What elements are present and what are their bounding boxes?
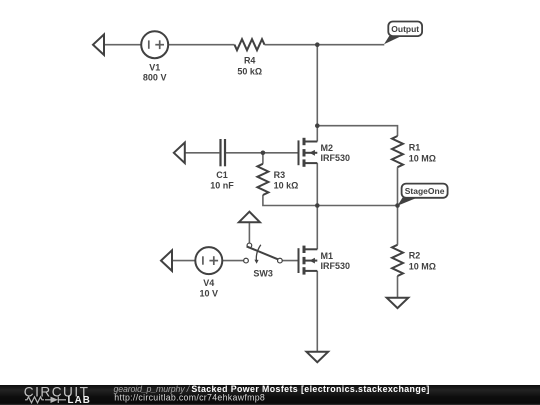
- svg-text:800 V: 800 V: [143, 73, 167, 83]
- svg-text:Output: Output: [391, 24, 419, 34]
- resistor R1: [392, 136, 403, 167]
- wire: R4 to Output flag: [265, 44, 385, 46]
- net flag arrow (top-left, net of V1): [93, 34, 104, 55]
- svg-text:R4: R4: [244, 55, 256, 65]
- wire: R2 top lead: [397, 206, 399, 245]
- junction node dots: [261, 42, 400, 207]
- wire: R3 bottom elbow to StageOne rail: [263, 195, 398, 206]
- svg-text:V1: V1: [149, 62, 160, 72]
- resistor R2: [392, 245, 403, 276]
- wire: V4 to SW3 pole: [222, 260, 243, 262]
- svg-text:10 nF: 10 nF: [210, 180, 234, 190]
- wire: junction to R1 top: [317, 126, 397, 136]
- transistor M1 (NMOS IRF530): [299, 246, 318, 275]
- svg-text:10 kΩ: 10 kΩ: [274, 181, 299, 191]
- voltage source V1: [141, 31, 168, 58]
- wire: M2 drain up to junction: [316, 126, 318, 142]
- svg-text:V4: V4: [203, 278, 214, 288]
- net flag arrow (mid-left, input net): [174, 143, 185, 164]
- wire: R2 bottom to ground: [397, 276, 399, 298]
- switch SW3 (SPDT): [244, 243, 283, 263]
- svg-text:10 MΩ: 10 MΩ: [409, 154, 436, 164]
- resistor R4: [235, 39, 265, 50]
- resistor R3: [257, 164, 268, 195]
- svg-text:10 MΩ: 10 MΩ: [409, 262, 436, 272]
- svg-text:10 V: 10 V: [200, 288, 219, 298]
- svg-text:R1: R1: [409, 143, 421, 153]
- svg-text:IRF530: IRF530: [321, 261, 351, 271]
- ground (below R2): [387, 298, 409, 308]
- net flag arrow (up, above SW3): [239, 212, 260, 223]
- node: output rail junction: [315, 42, 320, 47]
- node: M2 drain / R1 junction: [315, 123, 320, 128]
- net flag Output: [384, 36, 402, 44]
- svg-text:M2: M2: [321, 143, 334, 153]
- wire: top junction down to drain rail junction: [316, 45, 318, 126]
- node: C1 / R3 / M2 gate junction: [261, 151, 266, 156]
- wire: flag to V1: [104, 44, 141, 46]
- svg-text:50 kΩ: 50 kΩ: [237, 66, 262, 76]
- svg-text:C1: C1: [216, 170, 228, 180]
- svg-text:M1: M1: [321, 251, 334, 261]
- svg-text:R2: R2: [409, 251, 421, 261]
- wire: junction to R3 top: [262, 153, 264, 164]
- svg-text:IRF530: IRF530: [321, 153, 351, 163]
- wire: flag to C1: [185, 152, 220, 154]
- capacitor C1: [221, 139, 226, 166]
- wire: V1 to R4: [168, 44, 234, 46]
- svg-text:SW3: SW3: [253, 269, 273, 279]
- wire: junction to M2 gate: [263, 152, 299, 154]
- wire: R1 bottom to StageOne rail: [397, 167, 399, 205]
- wire: flag to V4: [172, 260, 195, 262]
- svg-text:R3: R3: [274, 170, 286, 180]
- net flag arrow (bottom-left, net of V4): [161, 250, 172, 271]
- wire: C1 to junction node: [226, 152, 263, 154]
- node: StageOne rail junction: [315, 203, 320, 208]
- logo resistor squiggle: [25, 397, 66, 403]
- svg-text:StageOne: StageOne: [405, 186, 445, 196]
- net flag StageOne: [397, 198, 417, 206]
- ground (main, below M1): [307, 352, 329, 362]
- svg-text:http://circuitlab.com/cr74ehka: http://circuitlab.com/cr74ehkawfmp8: [114, 393, 265, 403]
- wire: SW3 throw up to up-flag: [248, 222, 250, 243]
- node: StageOne / R1 / R2 junction: [395, 203, 400, 208]
- transistor M2 (NMOS IRF530): [299, 138, 318, 167]
- footer bar: [0, 385, 540, 405]
- logo diode: [51, 397, 59, 403]
- wire: M1 source to ground: [316, 271, 318, 352]
- svg-text:LAB: LAB: [68, 395, 91, 405]
- wire: SW3 to M1 gate: [282, 260, 298, 262]
- wire: rail down to M1 drain: [316, 206, 318, 250]
- voltage source V4: [195, 247, 222, 274]
- wire: M2 source down to rail: [316, 163, 318, 205]
